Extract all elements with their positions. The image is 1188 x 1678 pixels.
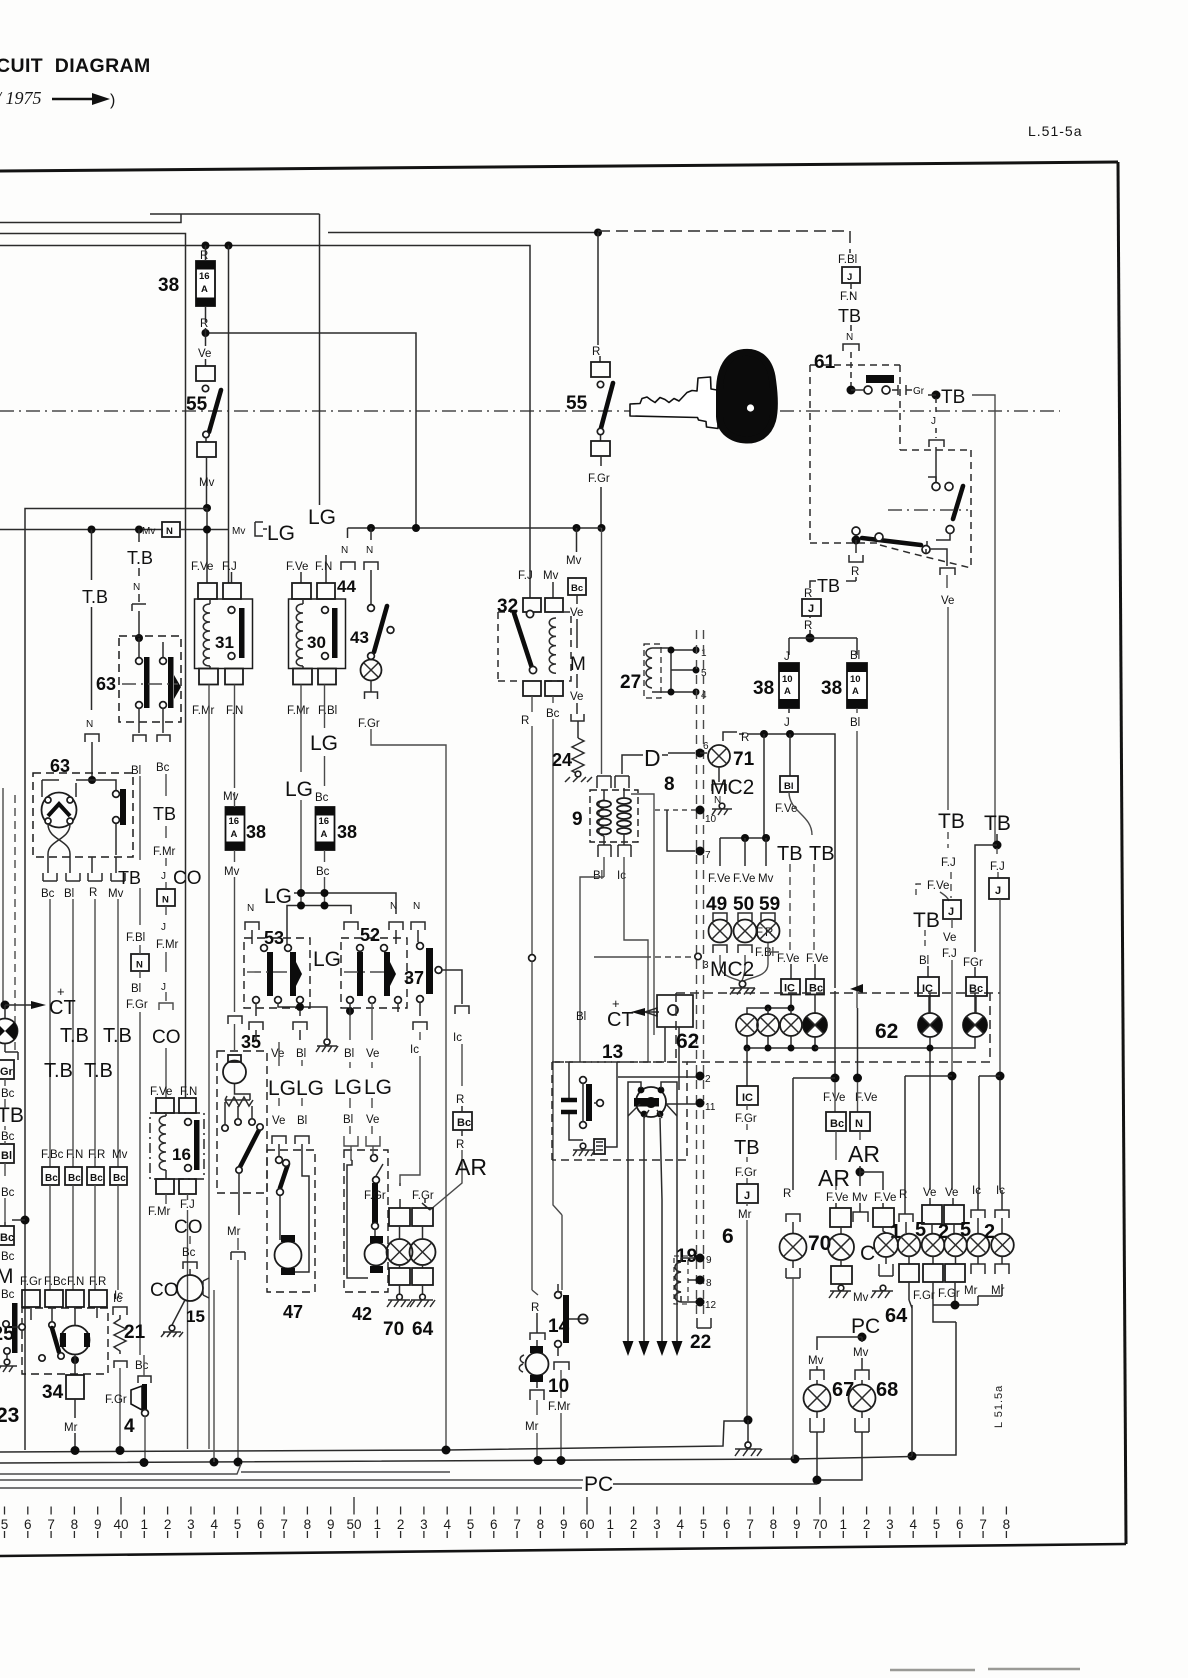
svg-text:64: 64 — [412, 1319, 434, 1340]
HT leads with arrows — [623, 1082, 683, 1356]
svg-text:J: J — [808, 603, 814, 615]
frame bottom border — [0, 1544, 1126, 1556]
svg-text:Ic: Ic — [113, 1293, 122, 1305]
svg-text:Ic: Ic — [972, 1185, 981, 1197]
connector Bl boxed left — [0, 1144, 14, 1163]
svg-text:Ve: Ve — [570, 607, 583, 619]
svg-text:F.Ve: F.Ve — [775, 803, 797, 815]
svg-text:3: 3 — [420, 1517, 428, 1532]
connector Bl boxed — [789, 734, 791, 776]
relay 16 — [148, 1086, 204, 1218]
svg-text:N: N — [855, 1118, 863, 1130]
svg-text:F.Mr: F.Mr — [192, 705, 215, 717]
coil 9 output connectors Bl Ic — [598, 845, 631, 857]
relay 32 — [497, 570, 571, 727]
svg-text:Ic: Ic — [617, 870, 626, 882]
switch 55 pivot — [202, 385, 208, 391]
svg-text:N: N — [366, 545, 373, 556]
svg-text:N: N — [166, 526, 173, 537]
svg-text:F.Mr: F.Mr — [148, 1206, 171, 1218]
svg-text:Bl: Bl — [850, 650, 860, 662]
column x747 IC FGr TB FGr J Mr — [734, 1048, 760, 1418]
svg-text:T.B: T.B — [60, 1025, 89, 1047]
horn 4 — [105, 1355, 151, 1461]
svg-text:4: 4 — [909, 1517, 917, 1532]
svg-text:3: 3 — [886, 1517, 894, 1532]
contact 63b right — [113, 789, 126, 855]
svg-text:1: 1 — [840, 1517, 848, 1532]
svg-text:9: 9 — [706, 1255, 712, 1266]
lamp 70b — [808, 1227, 854, 1260]
node 63a top — [135, 634, 143, 642]
svg-text:6: 6 — [723, 1517, 731, 1532]
MC2 lamp cluster 49 50 59 — [706, 838, 780, 995]
riser lamp6 to bus — [792, 1278, 794, 1459]
trafficator coil 19 — [674, 1246, 697, 1304]
wires 63b to connector row — [48, 854, 116, 873]
svg-text:Bc: Bc — [1, 1289, 15, 1301]
heated rear window 14 and motor 10 — [530, 1284, 588, 1461]
svg-text:Bl: Bl — [593, 870, 603, 882]
svg-text:12: 12 — [705, 1300, 717, 1311]
svg-text:2: 2 — [164, 1517, 172, 1532]
svg-text:7: 7 — [746, 1517, 754, 1532]
ignition R column with inline TB — [802, 540, 863, 638]
connector rect row above 34 — [22, 1290, 40, 1307]
bus L3b — [0, 1479, 583, 1481]
svg-text:Bl: Bl — [919, 955, 929, 967]
ignition switch 61 dashed enclosure — [810, 365, 971, 568]
connector J boxed (Ve col) — [943, 900, 961, 919]
component 27 (flasher coil) — [620, 644, 707, 701]
four harness columns continue — [50, 1140, 118, 1167]
wiper group 53 outputs: Ve Bl columns — [249, 1003, 324, 1160]
svg-text:Bc: Bc — [68, 1173, 81, 1184]
svg-text:LG: LG — [268, 1077, 296, 1100]
svg-text:10: 10 — [782, 674, 793, 685]
wire MC2 bus y838 — [720, 837, 766, 839]
windscreen washer pump 10 — [519, 1340, 569, 1461]
svg-text:Bc: Bc — [830, 1118, 844, 1130]
svg-text:Bl: Bl — [850, 717, 860, 729]
node y529 x91.5 — [88, 526, 96, 534]
svg-text:2: 2 — [705, 1074, 711, 1085]
svg-text:F.R: F.R — [88, 1149, 105, 1161]
svg-text:F.Ve: F.Ve — [855, 1092, 877, 1104]
svg-text:TB: TB — [777, 843, 803, 865]
column Mv-Bc-Ve-M — [566, 524, 586, 738]
harness column x166 Bc TB F.Mr J N J F.Mr J CO — [152, 774, 181, 1098]
svg-text:F.Gr: F.Gr — [735, 1113, 757, 1125]
supply bus L2 — [0, 1457, 912, 1464]
svg-text:CO: CO — [173, 868, 202, 889]
switch 55 upper connector — [205, 359, 207, 366]
svg-text:F.Ve: F.Ve — [708, 873, 730, 885]
svg-text:F.Mr: F.Mr — [548, 1401, 571, 1413]
svg-text:6: 6 — [703, 741, 709, 752]
svg-text:J: J — [161, 982, 166, 993]
svg-text:F.Ve: F.Ve — [286, 561, 308, 573]
relay box O (62 supply) — [657, 995, 693, 1090]
wire Ve riser x=948 — [947, 575, 948, 810]
svg-text:MC2: MC2 — [710, 958, 754, 981]
svg-text:49: 49 — [706, 894, 727, 915]
svg-text:1: 1 — [141, 1517, 149, 1532]
svg-text:F.Bl: F.Bl — [838, 254, 857, 266]
bracket LG feed 52 — [344, 922, 358, 930]
svg-text:N: N — [390, 901, 397, 912]
svg-text:R: R — [456, 1094, 464, 1106]
pin 11 — [696, 1099, 705, 1108]
svg-text:LG: LG — [310, 732, 338, 755]
svg-text:J: J — [784, 651, 790, 663]
svg-text:13: 13 — [602, 1042, 623, 1063]
svg-text:Mv: Mv — [232, 526, 245, 537]
svg-text:Bl: Bl — [64, 888, 74, 900]
ignition second contact pair — [932, 483, 940, 491]
62 lamp 5 (right cluster) — [918, 993, 975, 1037]
connector Bc boxes row — [42, 1167, 59, 1185]
svg-text:63: 63 — [96, 674, 116, 694]
arrow mark on 62 box edge — [850, 984, 863, 993]
svg-text:L.51-5a: L.51-5a — [1028, 123, 1082, 139]
svg-text:T.B: T.B — [82, 587, 108, 607]
svg-text:6: 6 — [24, 1517, 32, 1532]
ground 24 — [565, 771, 592, 782]
svg-text:Bc: Bc — [1, 1131, 15, 1143]
svg-text:TB: TB — [118, 868, 141, 888]
node fuse split — [806, 634, 815, 643]
four long risers from 63b connectors — [50, 899, 118, 1140]
svg-text:F.Mr: F.Mr — [156, 939, 179, 951]
svg-text:Ve: Ve — [198, 348, 211, 360]
svg-text:FGr: FGr — [963, 957, 983, 969]
ruler scale — [5, 1497, 1007, 1538]
svg-text:Bl: Bl — [343, 1114, 353, 1126]
pins 9 8 12 — [696, 1254, 705, 1263]
wire x764 to MC2 bus — [763, 734, 765, 838]
wire Ic jog — [624, 857, 648, 1062]
svg-text:9: 9 — [560, 1517, 568, 1532]
svg-text:LG: LG — [313, 948, 341, 971]
svg-text:40: 40 — [113, 1517, 128, 1532]
dash-dot line 61 — [888, 509, 968, 511]
node TB right — [932, 391, 941, 400]
svg-text:A: A — [852, 686, 859, 697]
fuse 38e (16A) — [226, 807, 245, 850]
svg-text:5: 5 — [234, 1517, 242, 1532]
fuse 38f (16A) — [316, 807, 335, 850]
svg-text:TB: TB — [984, 812, 1011, 835]
svg-text:Mv: Mv — [142, 526, 155, 537]
svg-text:Mr: Mr — [64, 1422, 78, 1434]
ground MC2 upper — [719, 803, 725, 809]
thermal resistor 21 — [113, 1293, 146, 1450]
svg-text:Mv: Mv — [808, 1355, 824, 1367]
wires 62 right lamps down — [815, 1037, 975, 1060]
svg-text:Ve: Ve — [366, 1048, 379, 1060]
svg-text:J: J — [784, 717, 790, 729]
column x166 below 16: CO Bc motor 15 — [166, 1194, 203, 1275]
svg-text:N: N — [413, 901, 420, 912]
svg-text:44: 44 — [337, 577, 356, 596]
svg-text:9: 9 — [94, 1517, 102, 1532]
svg-text:6: 6 — [490, 1517, 498, 1532]
wire 53 middle to ground — [278, 1003, 327, 1038]
svg-text:27: 27 — [620, 672, 641, 693]
connector Bc boxed AR — [826, 1112, 846, 1131]
wire relay31 F.Mr riser long — [208, 685, 210, 1450]
62 lamps lower bus — [747, 1036, 815, 1048]
svg-text:16: 16 — [319, 816, 330, 827]
dash-dot reference centerline — [0, 410, 1060, 412]
svg-text:Mr: Mr — [964, 1285, 978, 1297]
svg-text:TB: TB — [809, 843, 835, 865]
svg-text:Mv: Mv — [199, 477, 215, 489]
62 lamp 1 — [736, 995, 815, 1037]
switch 55b blade — [601, 383, 613, 428]
svg-text:Bc: Bc — [457, 1117, 471, 1129]
node M column — [21, 1216, 30, 1225]
svg-text:F.Mr: F.Mr — [153, 846, 176, 858]
fuse 38c (10A) — [779, 663, 799, 708]
ignition node to R column — [852, 536, 861, 545]
svg-text:C: C — [860, 1242, 875, 1265]
svg-text:Ve: Ve — [366, 1114, 379, 1126]
ignition key (silhouette) — [630, 352, 774, 440]
svg-text:7: 7 — [705, 850, 711, 861]
svg-text:F.J: F.J — [222, 561, 237, 573]
harness dashed bus x=700 — [696, 630, 698, 1316]
svg-text:6: 6 — [722, 1225, 734, 1248]
svg-text:Mv: Mv — [566, 555, 582, 567]
svg-text:5: 5 — [700, 1517, 708, 1532]
frame top border — [0, 162, 1118, 171]
svg-text:Bc: Bc — [135, 1360, 149, 1372]
ignition coil 9 — [572, 788, 654, 1035]
svg-text:T.B: T.B — [84, 1060, 113, 1082]
svg-text:68: 68 — [876, 1379, 898, 1401]
svg-text:T.B: T.B — [127, 548, 153, 568]
svg-text:R: R — [851, 566, 859, 578]
left edge dashed harness — [14, 795, 16, 1055]
svg-text:21: 21 — [124, 1322, 146, 1343]
svg-text:62: 62 — [875, 1020, 898, 1043]
svg-text:Bc: Bc — [1, 1187, 15, 1199]
svg-text:Bl: Bl — [296, 1048, 306, 1060]
svg-text:Bc: Bc — [45, 1173, 58, 1184]
svg-text:3: 3 — [187, 1517, 195, 1532]
svg-text:71: 71 — [733, 749, 755, 770]
connector pair below 63a — [133, 735, 170, 742]
svg-text:3: 3 — [703, 960, 709, 971]
svg-text:Ve: Ve — [941, 595, 954, 607]
svg-text:Ve: Ve — [943, 932, 956, 944]
wire Mv branch left with riser x=25 — [25, 509, 207, 1451]
svg-text:F.Gr: F.Gr — [105, 1394, 127, 1406]
svg-text:15: 15 — [186, 1307, 205, 1326]
svg-text:Mr: Mr — [525, 1421, 539, 1433]
svg-text:5: 5 — [467, 1517, 475, 1532]
ignition blade 2 — [953, 486, 963, 519]
svg-text:38: 38 — [246, 822, 266, 842]
fog lamp 67 — [804, 1337, 863, 1485]
svg-text:L 51.5a: L 51.5a — [993, 1385, 1005, 1428]
wire branch x=228.5 to relay31 — [228, 246, 230, 584]
switch 55 blade — [209, 390, 221, 432]
wire TB-left column to IC — [789, 864, 791, 950]
svg-text:60: 60 — [579, 1517, 594, 1532]
svg-text:TB: TB — [938, 810, 965, 833]
svg-text:N: N — [86, 719, 93, 730]
svg-text:F.Ve: F.Ve — [191, 561, 213, 573]
svg-text:3: 3 — [653, 1517, 661, 1532]
wire Ve column dashes — [948, 832, 951, 898]
faint pencil marks bottom right — [890, 1669, 1080, 1670]
terminal circle R column — [529, 955, 536, 962]
svg-text:/ 1975: / 1975 — [0, 88, 42, 108]
switch 55 lower contact — [203, 431, 209, 437]
wire Bl to condenser box — [580, 857, 604, 1062]
wire relay31 F.N down to fuse 38e — [234, 685, 236, 789]
svg-text:7: 7 — [979, 1517, 987, 1532]
svg-text:9: 9 — [572, 809, 583, 830]
svg-text:J: J — [948, 906, 954, 918]
svg-text:F.Ve: F.Ve — [823, 1092, 845, 1104]
svg-text:R: R — [200, 318, 208, 330]
svg-text:A: A — [231, 829, 238, 840]
wire feed C with long riser x=185 — [0, 234, 186, 1099]
switch 37 — [404, 943, 442, 1003]
svg-text:LG: LG — [334, 1076, 362, 1099]
below lamp row connectors — [840, 1260, 842, 1266]
svg-text:D: D — [644, 745, 661, 771]
connector 34 output — [66, 1375, 84, 1399]
arrow to CT — [5, 1004, 32, 1006]
rotor switch 63b — [42, 780, 77, 854]
svg-text:Bc: Bc — [1, 1251, 15, 1263]
column x324.5 (F.Bl 30) LG Bc fuse — [324, 685, 326, 787]
svg-text:F.Gr: F.Gr — [735, 1167, 757, 1179]
node and ground mid-bottom — [744, 1416, 753, 1425]
bus L3 — [0, 1464, 450, 1474]
wire feed D to ignition — [328, 232, 598, 234]
svg-text:Ve: Ve — [272, 1115, 285, 1127]
relay box 63a (contact set) — [119, 636, 181, 733]
svg-text:5: 5 — [1, 1517, 9, 1532]
svg-text:F.N: F.N — [66, 1149, 83, 1161]
svg-text:F.Gr: F.Gr — [20, 1276, 42, 1288]
junction nodes y1076 — [948, 1072, 957, 1081]
svg-text:F.N: F.N — [840, 291, 857, 303]
node 53 right — [296, 1003, 304, 1011]
svg-text:8: 8 — [537, 1517, 545, 1532]
connector row Bc Bl R Mv — [41, 873, 125, 900]
svg-text:42: 42 — [352, 1304, 372, 1324]
wire TB to riser x=995 — [972, 395, 995, 845]
wiper motor unit 42 — [334, 1003, 398, 1292]
charge lamp left — [0, 1005, 18, 1060]
svg-text:TB: TB — [913, 909, 940, 932]
svg-text:Mv: Mv — [223, 791, 239, 803]
svg-text:31: 31 — [215, 633, 234, 652]
svg-text:LG: LG — [267, 522, 295, 545]
svg-text:J: J — [847, 272, 852, 283]
svg-text:LG: LG — [285, 778, 313, 801]
svg-text:F.Gr: F.Gr — [588, 473, 610, 485]
switch 43 — [350, 605, 394, 660]
svg-text:F.Gr: F.Gr — [938, 1288, 960, 1300]
svg-text:F.Gr: F.Gr — [412, 1190, 434, 1202]
svg-text:N: N — [133, 582, 140, 593]
bus L4 PC — [0, 1487, 582, 1489]
svg-text:M: M — [0, 1265, 14, 1288]
ignition bridge bar — [866, 375, 894, 383]
svg-text:1: 1 — [607, 1517, 615, 1532]
switch 53 — [244, 928, 310, 1008]
wire LG bus y528 — [348, 527, 602, 529]
wire fuse 38c down — [788, 708, 790, 734]
frame right border — [1118, 162, 1126, 1544]
svg-text:4: 4 — [443, 1517, 451, 1532]
svg-text:MC2: MC2 — [710, 776, 754, 799]
pin 3 — [695, 953, 701, 959]
column x91.5: TB N bracket to distributor 63 — [82, 530, 108, 781]
node D — [594, 229, 602, 237]
svg-text:34: 34 — [42, 1382, 64, 1403]
svg-text:M: M — [570, 654, 586, 675]
svg-text:TB: TB — [153, 804, 176, 824]
wire 63b internal — [42, 780, 116, 790]
svg-text:T.B: T.B — [103, 1025, 132, 1047]
svg-text:Mv: Mv — [853, 1347, 869, 1359]
svg-text:N: N — [162, 895, 169, 906]
svg-text:F.Ve: F.Ve — [826, 1192, 848, 1204]
svg-text:F.Bl: F.Bl — [318, 705, 337, 717]
svg-text:J: J — [744, 1190, 750, 1202]
wire Bl riser continues to AR node — [857, 1008, 859, 1076]
svg-text:2: 2 — [397, 1517, 405, 1532]
svg-text:CUIT DIAGRAM: CUIT DIAGRAM — [0, 55, 151, 77]
svg-text:10: 10 — [850, 674, 861, 685]
svg-text:F.Gr: F.Gr — [364, 1190, 386, 1202]
node Mv1 — [203, 504, 211, 512]
svg-text:38: 38 — [753, 678, 774, 699]
riser x=214 — [213, 1290, 215, 1462]
svg-text:9: 9 — [327, 1517, 335, 1532]
svg-text:55: 55 — [566, 393, 588, 414]
svg-text:A: A — [201, 284, 208, 295]
svg-text:38: 38 — [158, 275, 179, 296]
node 52 left — [346, 1007, 354, 1015]
svg-text:Mv: Mv — [853, 1292, 869, 1304]
svg-text:70: 70 — [383, 1319, 404, 1340]
svg-text:55: 55 — [186, 394, 208, 415]
harness column x140 F.Bl N Bl F.Gr — [118, 776, 149, 1355]
wire bus y905.5 — [287, 906, 351, 949]
svg-text:30: 30 — [307, 633, 326, 652]
wire fuse 38d down (Bl long riser) — [856, 708, 858, 1008]
rear lamp 70 — [364, 1183, 413, 1307]
62 lamp 6 — [963, 1013, 987, 1037]
svg-text:IC: IC — [742, 1092, 753, 1104]
svg-text:Bc: Bc — [0, 1232, 14, 1244]
svg-text:50: 50 — [733, 894, 754, 915]
wire feed E (R bus) — [0, 246, 530, 599]
switch 25 left edge — [0, 1303, 25, 1372]
node y529 x139 — [135, 526, 143, 534]
resistor 24 — [552, 738, 584, 774]
